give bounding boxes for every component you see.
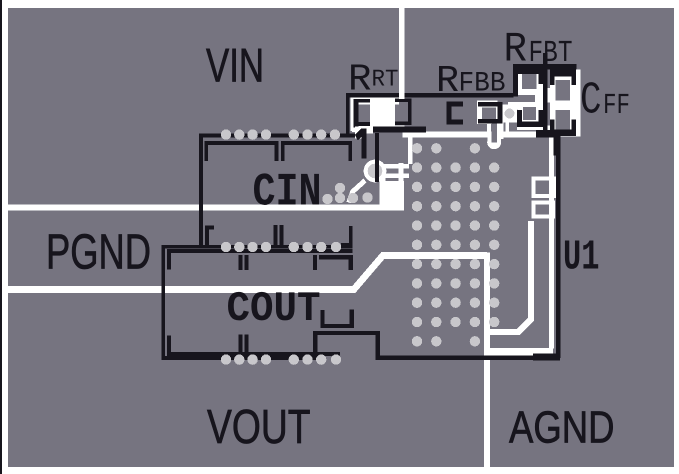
svg-text:COUT: COUT (227, 285, 321, 333)
page border line left (0, 0, 2, 474)
wire: white band below pin1 via (379, 176, 385, 211)
capacitor COUT outline left (162, 245, 166, 360)
svg-text:RT: RT (372, 67, 399, 94)
wire: white gap over RRT net line (399, 92, 404, 99)
RFBT / CFF white pads (508, 69, 581, 137)
resistor RFBT / capacitor CFF outline (513, 64, 577, 69)
wire: U1 bottom white edge (486, 348, 553, 356)
wire: white crossing over CIN line end (355, 126, 373, 133)
wire: VIN top white channel (399, 8, 404, 93)
resistor RFBB pad brackets (447, 102, 452, 125)
WHITE COPPER SEPARATORS / TRACES (8, 8, 555, 467)
via row on CIN bottom line (221, 242, 231, 252)
pin 1 marker of U1 (355, 129, 367, 159)
capacitor COUT top pad brackets (239, 255, 243, 270)
svg-text:FF: FF (603, 89, 630, 122)
wire: white trace bands right of pin1 via (380, 164, 409, 169)
via row on COUT bottom line (221, 354, 231, 364)
wire: VOUT trace outline step (315, 333, 558, 358)
pad U1 left pad B (white outline) (533, 203, 553, 217)
wire: RFBB stub down (487, 122, 491, 134)
wire: U1 island top white edge (403, 132, 555, 138)
pad U1 left pad A (white outline) (533, 179, 554, 197)
via at pin1 (pad) (368, 164, 383, 179)
resistor RFBT / capacitor CFF pad centers (522, 74, 570, 129)
svg-text:FBT: FBT (529, 37, 573, 71)
wire: white hook from via to W1 (349, 181, 365, 203)
svg-text:U1: U1 (563, 234, 600, 282)
wire: U1 right black edge (556, 131, 561, 358)
via ring (pin1) (364, 160, 387, 183)
wire: RRT net top line (350, 93, 514, 98)
via at RFBB (505, 109, 515, 119)
resistor RRT pad brackets (354, 99, 359, 128)
via cluster right of CIN (322, 194, 332, 204)
wire: white separator W1 VIN/PGND (8, 205, 403, 211)
svg-text:AGND: AGND (509, 402, 615, 453)
capacitor COUT outline top line (167, 249, 352, 253)
wire: white blob at W1 right end (383, 181, 404, 211)
capacitor COUT bottom pad brackets (239, 334, 243, 355)
wire: U1 right white edge (549, 137, 554, 349)
capacitor COUT outline bottom lines (167, 352, 340, 356)
resistor RFBB pad 2 center (482, 108, 496, 120)
svg-text:R: R (348, 59, 372, 102)
wire: white vertical separator VOUT/AGND (484, 252, 490, 467)
svg-text:R: R (504, 26, 528, 74)
capacitor CIN top pad brackets (204, 141, 278, 145)
wire: white separator W2 PGND/VOUT (8, 256, 487, 290)
via row on CIN top line (221, 129, 231, 139)
BLACK OUTLINES (162, 53, 577, 361)
wire: RRT center white channel (351, 97, 400, 104)
capacitor CIN outline box top (199, 133, 355, 137)
svg-text:R: R (436, 60, 459, 103)
svg-text:PGND: PGND (46, 225, 151, 280)
wire: RFBT bottom stub (536, 130, 559, 138)
svg-text:CIN: CIN (253, 166, 322, 219)
wire: U1 island left white edge (408, 133, 413, 164)
svg-text:VIN: VIN (206, 40, 264, 93)
capacitor CIN bottom pad brackets (205, 226, 209, 247)
capacitor CIN outline bottom line (162, 245, 352, 249)
VIAS (221, 109, 515, 365)
svg-text:VOUT: VOUT (207, 401, 311, 454)
svg-text:C: C (580, 75, 602, 127)
wire: heavy trace line right of pin1 (373, 126, 426, 132)
svg-text:FBB: FBB (459, 69, 506, 100)
via grid under U1 (412, 143, 500, 346)
wire: white notch at U1 bottom left (487, 221, 531, 332)
RFBB pad 2 white (477, 101, 517, 150)
